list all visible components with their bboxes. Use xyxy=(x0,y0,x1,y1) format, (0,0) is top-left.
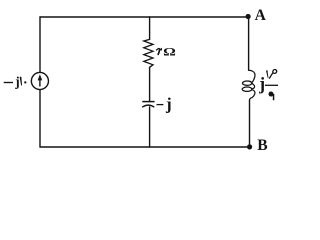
wire left upper xyxy=(39,17,41,73)
wire right lower xyxy=(249,100,251,147)
svg-text:j: j xyxy=(14,74,19,89)
svg-text:B: B xyxy=(257,137,267,154)
resistor xyxy=(144,39,153,67)
capacitor xyxy=(142,102,154,108)
svg-text:A: A xyxy=(255,7,267,24)
svg-text:j: j xyxy=(258,73,265,93)
wire middle mid xyxy=(149,67,151,101)
wire middle top xyxy=(149,17,151,39)
node B xyxy=(247,144,252,149)
wire left lower xyxy=(39,90,41,147)
svg-text:j: j xyxy=(165,95,172,114)
node A xyxy=(246,14,251,19)
label -j10 xyxy=(4,74,27,89)
label j16/9 xyxy=(258,70,278,101)
inductor xyxy=(242,70,255,100)
current source xyxy=(31,72,48,89)
wire bottom xyxy=(40,146,250,148)
label 2ohm xyxy=(156,46,175,59)
wire middle bottom xyxy=(149,107,151,147)
svg-text:Ω: Ω xyxy=(163,46,176,59)
wire top xyxy=(40,16,249,18)
wire right upper xyxy=(248,17,250,70)
label -j capacitor xyxy=(157,95,172,114)
